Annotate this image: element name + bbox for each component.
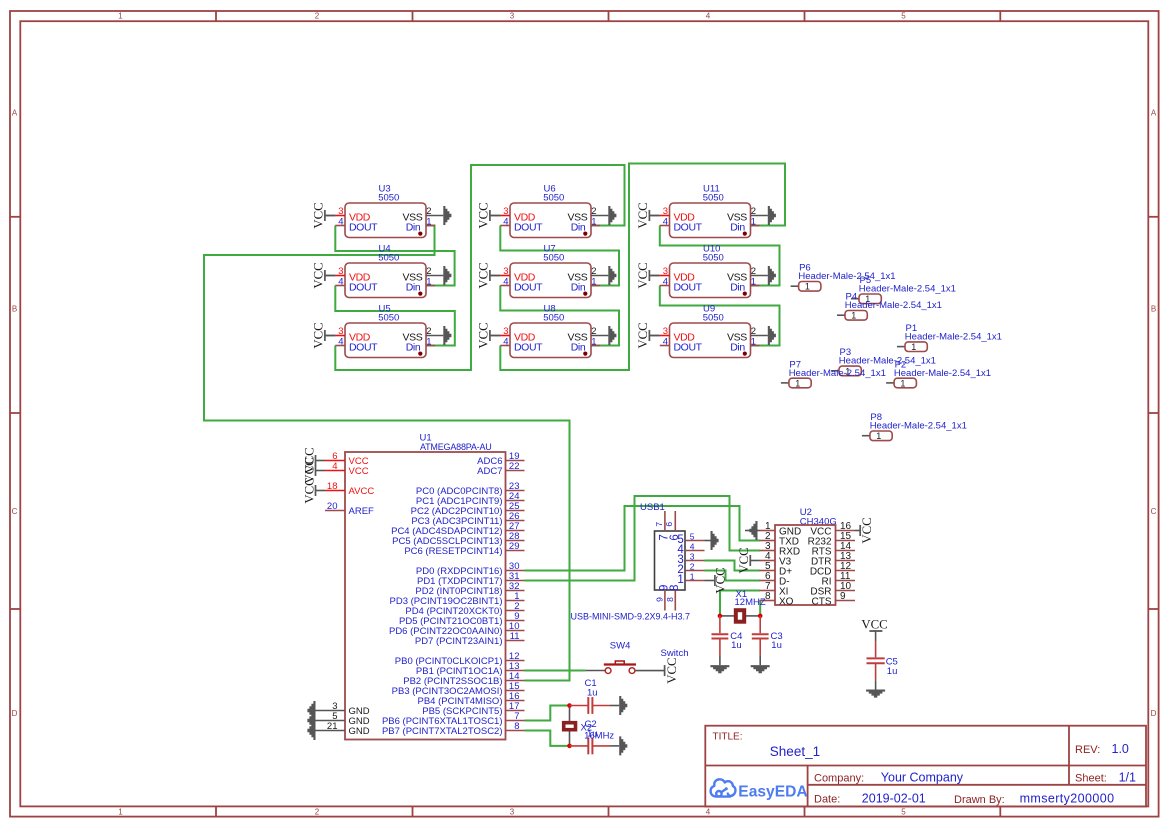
svg-text:PD7 (PCINT23AIN1): PD7 (PCINT23AIN1) bbox=[415, 636, 503, 647]
svg-text:1: 1 bbox=[751, 337, 756, 348]
svg-text:1: 1 bbox=[690, 572, 695, 582]
svg-text:4: 4 bbox=[690, 542, 695, 552]
svg-text:1: 1 bbox=[751, 277, 756, 288]
svg-text:VCC: VCC bbox=[302, 477, 316, 503]
svg-text:Din: Din bbox=[730, 222, 745, 234]
svg-text:VCC: VCC bbox=[477, 202, 491, 228]
svg-text:1: 1 bbox=[751, 217, 756, 228]
svg-text:1: 1 bbox=[426, 217, 431, 228]
svg-text:9: 9 bbox=[654, 597, 664, 602]
svg-text:5050: 5050 bbox=[703, 192, 724, 203]
svg-text:VCC: VCC bbox=[636, 262, 650, 288]
svg-text:DOUT: DOUT bbox=[674, 282, 703, 294]
svg-text:A: A bbox=[1151, 109, 1157, 118]
svg-text:2: 2 bbox=[591, 206, 596, 217]
svg-text:Din: Din bbox=[571, 342, 586, 354]
capacitor C2 1u bbox=[570, 745, 588, 747]
svg-text:3: 3 bbox=[663, 266, 668, 277]
svg-text:CTS: CTS bbox=[812, 597, 832, 608]
svg-text:2: 2 bbox=[591, 326, 596, 337]
wire U7.DOUT to U8.Din bbox=[500, 286, 619, 346]
svg-text:11: 11 bbox=[510, 631, 520, 642]
svg-text:1: 1 bbox=[118, 807, 123, 816]
svg-text:1: 1 bbox=[805, 282, 810, 292]
svg-text:Header-Male-2.54_1x1: Header-Male-2.54_1x1 bbox=[894, 368, 991, 379]
svg-text:D: D bbox=[1151, 709, 1157, 718]
IC U1 ATMEGA88PA-AU bbox=[345, 452, 506, 740]
svg-text:VCC: VCC bbox=[312, 262, 326, 288]
svg-text:1u: 1u bbox=[887, 666, 898, 677]
svg-text:5050: 5050 bbox=[703, 252, 724, 263]
svg-text:Din: Din bbox=[406, 222, 421, 234]
svg-text:4: 4 bbox=[503, 337, 508, 348]
svg-text:DOUT: DOUT bbox=[514, 222, 543, 234]
crystal X2 16MHz bbox=[569, 706, 571, 746]
svg-text:DOUT: DOUT bbox=[674, 342, 703, 354]
svg-text:1: 1 bbox=[591, 277, 596, 288]
svg-text:3: 3 bbox=[510, 807, 515, 816]
svg-text:5050: 5050 bbox=[543, 192, 564, 203]
svg-text:5: 5 bbox=[690, 532, 695, 542]
svg-text:ADC7: ADC7 bbox=[477, 466, 502, 477]
svg-text:3: 3 bbox=[663, 326, 668, 337]
svg-text:DOUT: DOUT bbox=[514, 282, 543, 294]
svg-text:TITLE:: TITLE: bbox=[713, 732, 743, 743]
svg-text:1u: 1u bbox=[731, 640, 742, 651]
svg-text:Header-Male-2.54_1x1: Header-Male-2.54_1x1 bbox=[905, 332, 1002, 343]
svg-text:4: 4 bbox=[338, 277, 343, 288]
wire U1.PB1 to SW4 bbox=[525, 670, 586, 672]
wire U6.DOUT to U7.Din bbox=[500, 226, 619, 286]
wire U5.DOUT to U6.Din bbox=[335, 165, 624, 370]
svg-text:5050: 5050 bbox=[378, 192, 399, 203]
VCC symbol at U2 pin 16 bbox=[855, 530, 860, 532]
svg-text:PB7 (PCINT7XTAL2TOSC2): PB7 (PCINT7XTAL2TOSC2) bbox=[382, 726, 503, 737]
svg-text:DOUT: DOUT bbox=[349, 342, 378, 354]
svg-text:16MHz: 16MHz bbox=[584, 730, 614, 741]
svg-text:4: 4 bbox=[338, 217, 343, 228]
svg-text:5: 5 bbox=[901, 807, 906, 816]
svg-text:Sheet_1: Sheet_1 bbox=[770, 744, 820, 759]
svg-text:D: D bbox=[12, 709, 18, 718]
capacitor C4 1u bbox=[719, 616, 721, 633]
svg-text:5050: 5050 bbox=[543, 312, 564, 323]
svg-text:2: 2 bbox=[751, 206, 756, 217]
svg-text:3: 3 bbox=[510, 11, 515, 20]
wire USB1.2 to U2.D- bbox=[705, 571, 761, 581]
svg-text:B: B bbox=[12, 305, 17, 314]
svg-text:Din: Din bbox=[406, 342, 421, 354]
svg-text:VCC: VCC bbox=[861, 617, 887, 631]
wire U1.PB6 to X2 top bbox=[525, 706, 570, 721]
svg-text:3: 3 bbox=[338, 326, 343, 337]
title block bbox=[705, 726, 1146, 807]
svg-text:SW4: SW4 bbox=[610, 640, 631, 651]
svg-text:B: B bbox=[1151, 305, 1156, 314]
svg-text:DOUT: DOUT bbox=[514, 342, 543, 354]
svg-text:3: 3 bbox=[503, 206, 508, 217]
wire U1.PB2 to U3.Din net bbox=[204, 226, 570, 681]
svg-text:VCC: VCC bbox=[312, 322, 326, 348]
svg-text:VCC: VCC bbox=[312, 202, 326, 228]
svg-text:DOUT: DOUT bbox=[349, 282, 378, 294]
EasyEDA logo bbox=[711, 779, 736, 796]
svg-text:VCC: VCC bbox=[860, 517, 874, 543]
svg-text:VCC: VCC bbox=[714, 567, 728, 593]
svg-text:4: 4 bbox=[706, 807, 711, 816]
svg-text:8: 8 bbox=[765, 591, 771, 602]
svg-text:1: 1 bbox=[876, 431, 881, 441]
wire USB1.3 to U2.D+ bbox=[705, 561, 761, 571]
svg-text:7: 7 bbox=[654, 522, 664, 527]
svg-text:2: 2 bbox=[751, 326, 756, 337]
svg-text:Din: Din bbox=[571, 222, 586, 234]
svg-text:mmserty200000: mmserty200000 bbox=[1020, 791, 1115, 805]
svg-text:1: 1 bbox=[900, 378, 905, 388]
svg-text:4: 4 bbox=[503, 217, 508, 228]
svg-text:1: 1 bbox=[795, 378, 800, 388]
svg-text:VCC: VCC bbox=[737, 547, 751, 573]
svg-text:Sheet:: Sheet: bbox=[1075, 773, 1107, 785]
svg-text:4: 4 bbox=[332, 461, 337, 472]
svg-text:VCC: VCC bbox=[477, 262, 491, 288]
svg-text:2: 2 bbox=[690, 562, 695, 572]
svg-text:ATMEGA88PA-AU: ATMEGA88PA-AU bbox=[420, 442, 492, 452]
svg-text:VCC: VCC bbox=[636, 322, 650, 348]
svg-text:Header-Male-2.54_1x1: Header-Male-2.54_1x1 bbox=[839, 356, 936, 367]
svg-text:3: 3 bbox=[690, 552, 695, 562]
svg-text:1u: 1u bbox=[771, 640, 782, 651]
wire U1.PB7 to X2 bottom bbox=[525, 731, 570, 746]
svg-text:4: 4 bbox=[663, 217, 668, 228]
svg-text:VCC: VCC bbox=[665, 657, 679, 683]
svg-text:Header-Male-2.54_1x1: Header-Male-2.54_1x1 bbox=[845, 300, 942, 311]
svg-text:1: 1 bbox=[426, 277, 431, 288]
svg-text:5050: 5050 bbox=[378, 252, 399, 263]
wire U4.DOUT to U5.Din bbox=[335, 286, 455, 346]
svg-text:1.0: 1.0 bbox=[1112, 742, 1129, 756]
svg-text:4: 4 bbox=[663, 277, 668, 288]
svg-text:1: 1 bbox=[851, 311, 856, 321]
svg-text:Din: Din bbox=[730, 342, 745, 354]
svg-text:2: 2 bbox=[315, 807, 320, 816]
svg-text:29: 29 bbox=[509, 541, 520, 552]
svg-text:Your Company: Your Company bbox=[881, 771, 964, 785]
svg-text:2: 2 bbox=[751, 266, 756, 277]
wire U2.XO to X1 bbox=[759, 601, 761, 616]
svg-text:REV:: REV: bbox=[1075, 744, 1100, 756]
svg-text:1/1: 1/1 bbox=[1119, 771, 1136, 785]
svg-text:5: 5 bbox=[901, 11, 906, 20]
svg-text:21: 21 bbox=[327, 721, 338, 732]
svg-text:5050: 5050 bbox=[703, 312, 724, 323]
svg-text:A: A bbox=[12, 109, 18, 118]
svg-text:Company:: Company: bbox=[814, 773, 864, 785]
svg-text:3: 3 bbox=[503, 266, 508, 277]
svg-text:VCC: VCC bbox=[349, 466, 369, 477]
svg-text:2: 2 bbox=[426, 206, 431, 217]
svg-text:Din: Din bbox=[571, 282, 586, 294]
svg-text:AVCC: AVCC bbox=[349, 486, 375, 497]
svg-text:8: 8 bbox=[514, 721, 519, 732]
svg-text:1: 1 bbox=[426, 337, 431, 348]
svg-text:1: 1 bbox=[911, 342, 916, 352]
svg-text:DOUT: DOUT bbox=[349, 222, 378, 234]
wire U8.DOUT to U11.Din bbox=[500, 164, 785, 371]
svg-text:Din: Din bbox=[730, 282, 745, 294]
wire U3.DOUT to U4.Din bbox=[335, 226, 454, 286]
svg-text:22: 22 bbox=[509, 461, 520, 472]
svg-text:12MHZ: 12MHZ bbox=[735, 597, 766, 608]
svg-text:2: 2 bbox=[591, 266, 596, 277]
svg-text:GND: GND bbox=[349, 726, 370, 737]
svg-text:4: 4 bbox=[503, 277, 508, 288]
svg-text:3: 3 bbox=[338, 206, 343, 217]
svg-text:20: 20 bbox=[327, 501, 338, 512]
svg-text:3: 3 bbox=[338, 266, 343, 277]
svg-text:AREF: AREF bbox=[349, 506, 375, 517]
svg-text:4: 4 bbox=[663, 337, 668, 348]
svg-text:Din: Din bbox=[406, 282, 421, 294]
svg-text:5050: 5050 bbox=[378, 312, 399, 323]
svg-text:1u: 1u bbox=[587, 688, 598, 699]
svg-text:1: 1 bbox=[677, 574, 683, 586]
svg-text:Date:: Date: bbox=[814, 793, 840, 805]
wire U2.XI to X1 bbox=[720, 591, 760, 616]
svg-text:XO: XO bbox=[779, 597, 794, 608]
svg-text:6: 6 bbox=[664, 522, 674, 527]
capacitor C1 1u bbox=[570, 705, 588, 707]
svg-text:DOUT: DOUT bbox=[674, 222, 703, 234]
svg-text:Drawn By:: Drawn By: bbox=[954, 794, 1005, 806]
svg-text:8: 8 bbox=[665, 597, 675, 602]
svg-text:VCC: VCC bbox=[477, 322, 491, 348]
svg-text:2: 2 bbox=[426, 266, 431, 277]
svg-text:2: 2 bbox=[426, 326, 431, 337]
svg-text:2: 2 bbox=[315, 11, 320, 20]
wire U1.PD1 to U2.RXD bbox=[525, 496, 761, 581]
svg-text:18: 18 bbox=[327, 481, 338, 492]
svg-text:9: 9 bbox=[840, 591, 846, 602]
svg-text:VCC: VCC bbox=[636, 202, 650, 228]
svg-text:2019-02-01: 2019-02-01 bbox=[862, 791, 926, 805]
capacitor C3 1u bbox=[759, 616, 761, 633]
svg-text:EasyEDA: EasyEDA bbox=[738, 783, 807, 800]
svg-text:Header-Male-2.54_1x1: Header-Male-2.54_1x1 bbox=[798, 271, 895, 282]
wire U1.PD0 to U2.TXD bbox=[525, 506, 761, 571]
svg-text:Header-Male-2.54_1x1: Header-Male-2.54_1x1 bbox=[789, 368, 886, 379]
svg-text:1: 1 bbox=[118, 11, 123, 20]
svg-text:3: 3 bbox=[503, 326, 508, 337]
svg-text:5050: 5050 bbox=[543, 252, 564, 263]
wire U11.DOUT to U10.Din bbox=[660, 226, 780, 286]
svg-text:Header-Male-2.54_1x1: Header-Male-2.54_1x1 bbox=[859, 284, 956, 295]
svg-text:C: C bbox=[12, 507, 18, 516]
wire U10.DOUT to U9.Din bbox=[660, 286, 780, 346]
svg-text:4: 4 bbox=[338, 337, 343, 348]
svg-text:4: 4 bbox=[706, 11, 711, 20]
svg-text:C: C bbox=[1151, 507, 1157, 516]
svg-text:1: 1 bbox=[591, 337, 596, 348]
svg-text:PC6 (RESETPCINT14): PC6 (RESETPCINT14) bbox=[404, 546, 502, 557]
svg-text:Header-Male-2.54_1x1: Header-Male-2.54_1x1 bbox=[870, 421, 967, 432]
svg-text:3: 3 bbox=[663, 206, 668, 217]
svg-text:1: 1 bbox=[591, 217, 596, 228]
svg-text:Switch: Switch bbox=[661, 648, 689, 659]
svg-text:USB-MINI-SMD-9.2X9.4-H3.7: USB-MINI-SMD-9.2X9.4-H3.7 bbox=[571, 612, 691, 622]
svg-text:USB1: USB1 bbox=[640, 502, 665, 513]
